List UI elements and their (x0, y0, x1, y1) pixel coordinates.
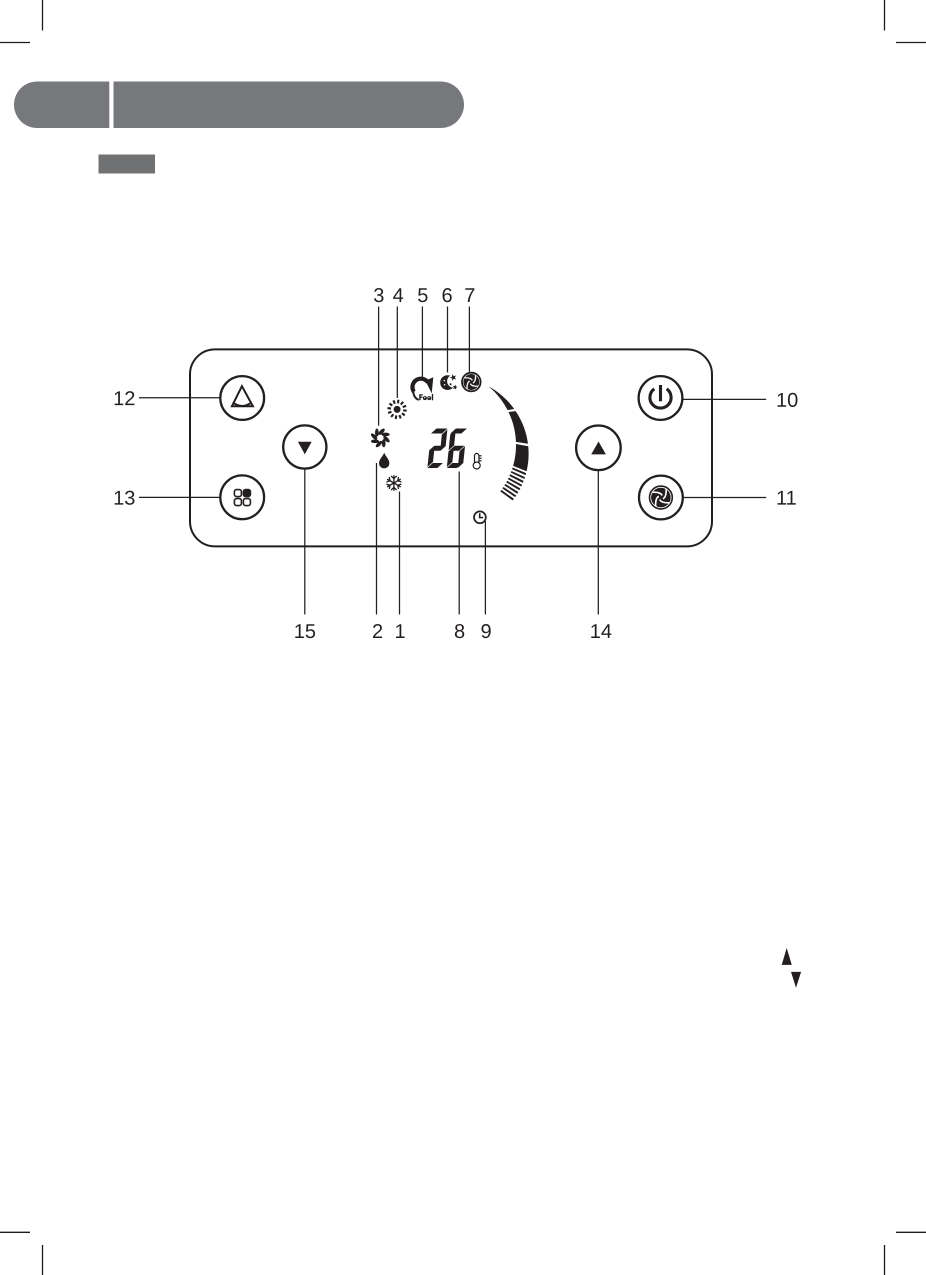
svg-text:15: 15 (294, 621, 316, 643)
svg-text:14: 14 (590, 621, 612, 643)
svg-text:2: 2 (372, 621, 383, 643)
svg-text:7: 7 (464, 285, 475, 307)
svg-text:8: 8 (454, 621, 465, 643)
svg-text:3: 3 (373, 285, 384, 307)
svg-text:9: 9 (480, 621, 491, 643)
svg-text:11: 11 (776, 488, 797, 510)
svg-text:1: 1 (394, 621, 405, 643)
svg-text:6: 6 (442, 285, 453, 307)
svg-text:4: 4 (393, 285, 404, 307)
svg-text:5: 5 (417, 285, 428, 307)
svg-text:12: 12 (113, 388, 135, 410)
svg-text:13: 13 (113, 488, 135, 510)
svg-text:10: 10 (776, 390, 798, 412)
